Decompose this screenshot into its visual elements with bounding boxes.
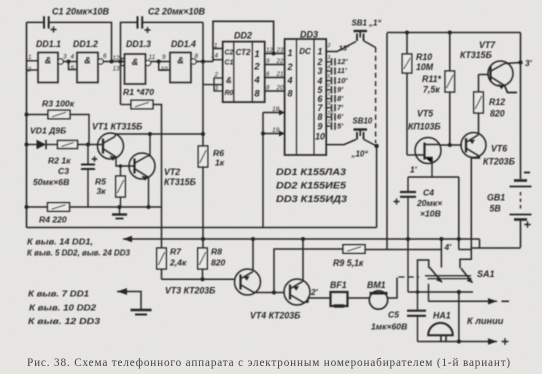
svg-text:R10: R10 (416, 52, 432, 62)
junction C3 top (86, 143, 90, 147)
svg-text:SB1 „1“: SB1 „1“ (352, 19, 382, 28)
minus mark line terminal (502, 300, 510, 302)
logic gate DD1.4 (170, 53, 196, 83)
arrow to line upper (429, 298, 498, 304)
svg-text:1: 1 (254, 49, 259, 60)
junction SA1 bottom right (457, 290, 461, 294)
junction R6 line on power rail (201, 237, 205, 241)
wire DD1.1 pin2 stub (27, 69, 39, 71)
svg-text:8: 8 (287, 89, 292, 99)
svg-text:R5: R5 (95, 177, 106, 187)
junction VT5 drain / R11 / VT6 base (448, 143, 452, 147)
resistor R5 (116, 176, 126, 197)
svg-text:VT5: VT5 (417, 109, 433, 119)
wire DD2 reset feed (203, 84, 223, 86)
junction C2 feedback / R6 node (201, 60, 205, 64)
wire top rail (387, 32, 521, 34)
svg-text:С1: С1 (225, 60, 234, 67)
wire C5 top lead (417, 292, 419, 310)
svg-text:DD1.1: DD1.1 (36, 39, 61, 49)
wire battery minus line (471, 247, 520, 249)
wire DD2 pin12 to pin1 feedback bracket (213, 21, 274, 53)
svg-text:R6: R6 (213, 148, 224, 158)
svg-text:DD1.2: DD1.2 (73, 39, 98, 49)
svg-text:К выв. 14 DD1,: К выв. 14 DD1, (27, 237, 93, 247)
keypad contact SB2 on output 2 (326, 58, 335, 65)
wire R12 top (478, 75, 480, 93)
transistor VT2 KT315B (129, 153, 155, 181)
junction VT3 emitter on rail (251, 237, 255, 241)
svg-text:GB1: GB1 (487, 193, 505, 203)
wire R11 top lead (449, 33, 451, 72)
transistor VT4 KT203B (284, 279, 310, 305)
svg-text:С3: С3 (58, 166, 69, 176)
svg-text:VT6: VT6 (491, 144, 507, 154)
junction VD1 anode (25, 143, 29, 147)
resistor R6 (198, 146, 208, 167)
svg-text:&: & (177, 56, 184, 66)
transistor VT7 KT315B (488, 61, 513, 89)
svg-text:R2 1к: R2 1к (48, 156, 71, 166)
wire to line-out arrow (428, 284, 430, 302)
earphone BF1 (331, 292, 348, 306)
wire R5 top lead (120, 166, 122, 176)
wire supply rail drop to battery line (479, 239, 481, 248)
resistor R2 (58, 141, 78, 149)
resistor R9 (343, 245, 365, 254)
svg-text:К выв. 7 DD1: К выв. 7 DD1 (28, 289, 89, 299)
svg-text:3': 3' (525, 58, 533, 68)
svg-text:R1 *470: R1 *470 (123, 87, 154, 97)
junction R5 top (119, 164, 123, 168)
svg-text:2: 2 (27, 67, 32, 74)
junction SB common node (374, 144, 378, 148)
svg-text:DD3: DD3 (300, 30, 318, 40)
logic gate DD1.3 (125, 54, 151, 84)
battery GB1 (510, 181, 532, 220)
svg-text:&: & (226, 76, 232, 85)
wire DD3 strobes to bottom rail (262, 113, 264, 228)
svg-text:R11*: R11* (422, 74, 441, 84)
svg-text:К линии: К линии (467, 316, 504, 326)
capacitor C1 (44, 16, 49, 28)
wire bottom bus (418, 341, 459, 343)
svg-text:VT2: VT2 (164, 167, 180, 177)
plus mark C3 polarity (92, 156, 98, 162)
svg-text:КТ315Б: КТ315Б (460, 50, 492, 60)
wire C3 bottom lead (87, 170, 89, 207)
wire DD2 pin2 stub (214, 78, 223, 85)
capacitor C5 (407, 311, 426, 316)
wire R5 bottom lead (120, 197, 122, 207)
wire R8 bottom (202, 269, 204, 279)
keypad contact SB9 on output 9 (326, 123, 335, 130)
junction VT4 emitter on rail (301, 237, 305, 241)
wire DD1.1 out to DD1.2 in (63, 61, 77, 63)
junction R4 left (25, 205, 29, 209)
wire VT1 collector stub (114, 134, 117, 137)
wire right rail to battery (520, 33, 522, 180)
transistor VT1 KT315B (98, 133, 124, 161)
svg-text:DC: DC (299, 47, 311, 56)
wire R1 left lead (121, 104, 132, 106)
strobe wedge marks DD3 pins 18 19 (279, 110, 285, 137)
wire VT2 collector lead (149, 134, 151, 156)
wire DD1.3 pin13 stub (121, 65, 125, 67)
transistor VT6 KT203B (461, 133, 486, 158)
wire DD2 out 1 to DD3 in (265, 53, 285, 55)
dashed common line SB1..SB10 (375, 48, 377, 144)
wire node 1' bus (408, 176, 459, 178)
svg-text:6: 6 (103, 53, 107, 60)
wire R11 bottom to VT6 base (449, 92, 451, 145)
minus mark GB1 (524, 172, 530, 174)
wire R9 left leg (274, 249, 343, 293)
svg-text:2': 2' (310, 287, 319, 297)
arrow to line lower (459, 338, 497, 344)
switch SA1 lever bars (425, 276, 472, 279)
ground symbol below R5 (112, 207, 127, 219)
svg-text:С2: С2 (225, 50, 234, 57)
svg-text:21: 21 (276, 71, 284, 78)
wire R7/R8 to VT3 base (162, 278, 236, 280)
push button SB1 (354, 31, 368, 41)
svg-text:1: 1 (318, 47, 323, 57)
switch SA1 pole 1 arm (430, 267, 443, 282)
resistor R10 (402, 54, 412, 73)
svg-text:2: 2 (327, 43, 331, 49)
svg-text:DD2: DD2 (234, 31, 252, 41)
svg-text:9: 9 (266, 58, 270, 65)
push button SB10 (354, 130, 368, 140)
wire C5 bottom lead (417, 317, 419, 342)
wire DD1.2 pin5 tie (69, 62, 78, 70)
switch SA1 lever dashes (399, 276, 420, 278)
svg-text:12: 12 (113, 55, 121, 62)
svg-text:3: 3 (63, 54, 67, 61)
svg-text:20: 20 (276, 85, 284, 92)
svg-text:8: 8 (195, 53, 199, 60)
counter IC DD2 K155IE5 (223, 42, 265, 103)
wire VT3 emitter to supply rail (252, 239, 254, 272)
wire VT1/VT2 collectors to R6 node (116, 133, 204, 135)
wire 1' bus to pole2 bracket (459, 249, 472, 251)
svg-text:&: & (132, 57, 139, 67)
junction DD1.3 input node (119, 60, 123, 64)
wire DD3 out10 to SB10 (326, 140, 356, 145)
switch SA1 pole 1 bracket (418, 260, 429, 292)
svg-text:К выв. 10 DD2: К выв. 10 DD2 (29, 303, 96, 313)
wire node 1' bus down to SA1 (458, 177, 460, 250)
keypad contact SB7 on output 7 (326, 104, 335, 111)
wire DD1.4 out to DD2 (196, 61, 213, 63)
wire SB1 to common (364, 41, 376, 48)
wire VT7 emitter bar (505, 86, 518, 93)
svg-text:23: 23 (276, 47, 284, 54)
wire R12 to VT7 base (479, 74, 490, 76)
wire C3 top lead (87, 145, 89, 164)
junction pins 18-19 tie (261, 132, 265, 136)
svg-text:6: 6 (327, 83, 330, 89)
svg-text:1: 1 (214, 43, 217, 50)
svg-text:14: 14 (211, 53, 218, 60)
wire bottom rail (chip ground bus) (27, 227, 377, 229)
svg-text:R4 220: R4 220 (39, 215, 67, 225)
transistor VT3 KT203B (235, 269, 261, 295)
svg-text:3: 3 (318, 66, 323, 76)
logic gate DD1.1 (38, 53, 63, 83)
wire DD1.3 out to DD1.4 in (151, 61, 170, 63)
svg-text:DD2 К155ИЕ5: DD2 К155ИЕ5 (276, 181, 347, 191)
plus mark GB1 (524, 221, 530, 227)
svg-text:С5: С5 (388, 310, 399, 320)
wire DD3 out1 to SB1 (326, 42, 356, 52)
svg-text:4: 4 (71, 54, 75, 61)
svg-text:5В: 5В (490, 204, 502, 214)
plus mark C1 polarity (51, 27, 57, 33)
svg-text:11': 11' (337, 66, 348, 75)
decoder IC DD3 K155ID3 (285, 39, 327, 155)
wire C1 feedback right (49, 22, 112, 61)
wire VT4 collector to BF1 (304, 298, 331, 303)
svg-text:10М: 10М (416, 62, 434, 72)
svg-text:10': 10' (337, 76, 348, 85)
svg-text:20мк×: 20мк× (416, 198, 442, 208)
plus mark C2 polarity (145, 27, 151, 33)
wire C2 feedback left / DD1.3 input / R1 branch (121, 22, 138, 104)
svg-text:ВМ1: ВМ1 (367, 280, 386, 290)
resistor R7 (157, 248, 167, 269)
svg-text:DD1.3: DD1.3 (126, 39, 151, 49)
svg-text:5: 5 (71, 65, 75, 72)
junction DD1.4 input tie (157, 60, 161, 64)
wire VT6 emitter to R12 (477, 113, 480, 135)
svg-text:Рис. 38. Схема телефонного апп: Рис. 38. Схема телефонного аппарата с эл… (27, 357, 511, 369)
junction R11 top (448, 31, 452, 35)
junction node 4' on rail (439, 237, 443, 241)
svg-text:VT4 КТ203Б: VT4 КТ203Б (250, 311, 300, 321)
svg-text:2: 2 (214, 72, 219, 79)
svg-text:9: 9 (162, 54, 166, 61)
svg-text:С1 20мк×10В: С1 20мк×10В (52, 7, 110, 17)
svg-text:КП103Б: КП103Б (408, 122, 441, 132)
wire DD2 pin1 C2 stub (213, 49, 223, 62)
wire R4 ground line (27, 206, 162, 208)
svg-text:4: 4 (327, 64, 330, 70)
svg-text:820: 820 (211, 258, 226, 268)
svg-text:VT1 КТ315Б: VT1 КТ315Б (92, 122, 142, 132)
svg-text:VT7: VT7 (479, 40, 496, 50)
svg-text:НА1: НА1 (433, 311, 451, 321)
junction ground stub (118, 205, 122, 209)
wire R9 to SA1 fixed contact post (365, 249, 441, 251)
svg-text:2: 2 (286, 62, 292, 72)
wire BM1 to SA1 arm (388, 278, 397, 299)
svg-text:&: & (84, 56, 91, 66)
wire SA1 fixed contact post 1 (440, 239, 442, 268)
keypad contact SB6 on output 6 (326, 95, 335, 102)
wire VT3 collector to VT4 base (254, 292, 284, 294)
svg-text:К выв. 12 DD3: К выв. 12 DD3 (28, 316, 100, 326)
capacitor C4 (400, 192, 416, 197)
wire C4 bottom lead (407, 198, 409, 240)
svg-text:9: 9 (327, 101, 330, 107)
wire BF1 to BM1 (348, 297, 370, 299)
wire C1 feedback left (27, 21, 45, 23)
wire R10 bottom to VT5 gate (406, 73, 408, 155)
svg-text:SA1: SA1 (477, 269, 495, 279)
svg-text:1': 1' (410, 165, 418, 175)
switch SA1 pole 2 bracket (460, 250, 471, 269)
keypad contact SB3 on output 3 (326, 67, 335, 74)
wire VD1 anode lead (27, 144, 37, 146)
wire R3 right down to VD1 node (70, 115, 89, 145)
wire C2 feedback right (142, 21, 203, 23)
svg-text:R0: R0 (225, 90, 234, 97)
wire DD3 pin19 stub (263, 133, 285, 135)
bell HA1 (428, 323, 453, 342)
junction DD1.2 input tie (67, 60, 71, 64)
svg-text:„10“: „10“ (351, 150, 369, 159)
junction R10 top (405, 31, 409, 35)
svg-text:12': 12' (337, 57, 348, 66)
wire SA1 to bottom bus (458, 292, 460, 342)
wire DD2 pin3 stub (214, 85, 223, 91)
svg-text:BF1: BF1 (330, 280, 347, 290)
wire VT1 emitter to VT2 base (116, 157, 134, 166)
svg-text:R12: R12 (489, 97, 505, 107)
svg-text:10: 10 (327, 110, 333, 116)
svg-text:R7: R7 (170, 247, 182, 257)
svg-text:4': 4' (444, 242, 453, 252)
wire VT2 collector stub (147, 156, 151, 157)
junction collector wire to R6 line (201, 132, 205, 136)
resistor R1 (131, 100, 153, 109)
svg-text:11: 11 (149, 54, 156, 61)
svg-text:10: 10 (161, 66, 169, 73)
capacitor C3 (81, 165, 95, 170)
junction C4 on supply rail (406, 237, 410, 241)
wire DD1.3 pin12 stub (121, 58, 125, 60)
junction C1 feedback node (110, 60, 114, 64)
wire left vertical rail (DD1.1 pin2 / R3 / VD1 / R4 node) (26, 22, 28, 227)
wire gate lead (407, 154, 415, 156)
svg-text:6: 6 (266, 71, 270, 78)
plus mark C4 polarity (394, 199, 400, 205)
wire SB common to bottom rail (376, 146, 378, 228)
wire supply rail to SA1 bottom (407, 239, 409, 292)
svg-text:9: 9 (318, 121, 323, 131)
svg-text:8: 8 (266, 85, 270, 92)
junction R3 left (25, 113, 29, 117)
capacitor C2 (138, 16, 143, 28)
svg-text:КТ203Б: КТ203Б (483, 157, 515, 167)
wire DD2 out 8 to DD3 in (265, 90, 285, 92)
svg-text:2,4к: 2,4к (169, 258, 187, 268)
wire VT7 collector to node 3' (505, 63, 521, 64)
svg-text:R9 5,1к: R9 5,1к (333, 258, 364, 268)
svg-text:12: 12 (266, 47, 273, 54)
svg-text:3: 3 (215, 85, 219, 92)
wire VT5 source down (431, 160, 433, 177)
svg-text:КТ315Б: КТ315Б (164, 177, 196, 187)
svg-text:4: 4 (286, 76, 292, 86)
wire VT5 drain to VT6 base (440, 144, 463, 146)
wire DD1.4 pin10 tie (159, 62, 170, 71)
wire C4 top lead (407, 177, 409, 191)
svg-text:×10В: ×10В (420, 209, 441, 219)
wire VD1 to R2 (46, 144, 58, 146)
wire battery to line node (520, 220, 522, 248)
wire DD2 out 4 to DD3 in (265, 77, 285, 79)
wire DD3 pin18 stub (263, 112, 285, 114)
svg-text:VT3 КТ203Б: VT3 КТ203Б (165, 286, 215, 296)
keypad contact SB4 on output 4 (326, 77, 335, 84)
wire DD1.2 out to DD1.3 in (103, 61, 124, 63)
svg-text:1к: 1к (215, 158, 225, 168)
wire R7 bottom (161, 269, 163, 279)
svg-text:820: 820 (490, 109, 505, 119)
arrow ground note (117, 288, 141, 309)
keypad contact SB8 on output 8 (326, 113, 335, 120)
resistor R8 (198, 248, 208, 269)
svg-text:22: 22 (276, 58, 284, 65)
plus mark line terminal (502, 338, 509, 345)
wire R10 top lead (406, 33, 408, 55)
svg-text:SB10: SB10 (353, 117, 373, 126)
svg-text:10: 10 (315, 132, 325, 142)
svg-text:11: 11 (327, 120, 333, 126)
logic gate DD1.2 (77, 53, 103, 83)
svg-text:1: 1 (287, 48, 292, 58)
wire R6 bottom to R8 (202, 167, 204, 248)
junction R9 tap (272, 291, 276, 295)
svg-text:С4: С4 (423, 188, 434, 198)
wire C2 right down through R6 node (202, 22, 204, 146)
junction node 3' (518, 60, 522, 64)
wire R2 to VT1 base (78, 144, 103, 146)
wire SB10 to common (364, 140, 377, 147)
svg-text:DD3 К155ИД3: DD3 К155ИД3 (276, 194, 347, 204)
wire SA1 bottom bus (408, 291, 473, 293)
junction R8 bottom tie (201, 277, 205, 281)
wire R1 right to R7 vertical (153, 105, 162, 249)
wire VT2 emitter down (147, 177, 150, 207)
svg-text:50мк×6В: 50мк×6В (33, 177, 69, 187)
svg-text:DD1.4: DD1.4 (171, 39, 196, 49)
svg-text:3к: 3к (97, 186, 107, 196)
arrow to chip supply pins (123, 236, 133, 242)
resistor R3 (48, 110, 70, 119)
wire VT4 emitter to supply rail (302, 239, 303, 282)
wire R3 left lead (27, 114, 49, 116)
svg-text:7,5к: 7,5к (423, 85, 440, 95)
svg-text:DD1 К155ЛА3: DD1 К155ЛА3 (276, 167, 346, 177)
resistor R4 (48, 203, 70, 212)
svg-text:R3 100к: R3 100к (42, 99, 75, 109)
svg-text:1мк×60В: 1мк×60В (371, 322, 407, 332)
ground symbol annotation (131, 310, 152, 315)
svg-text:СТ2: СТ2 (236, 48, 251, 57)
resistor R11 (445, 71, 455, 92)
junction C5 top (416, 290, 420, 294)
svg-text:R8: R8 (211, 247, 222, 257)
junction feedback on Q0 wire (272, 52, 276, 56)
wire DD2 pin14 C1 stub (213, 60, 223, 62)
svg-text:4: 4 (253, 75, 260, 86)
svg-text:3: 3 (327, 55, 330, 61)
junction bottom bus (457, 339, 461, 343)
